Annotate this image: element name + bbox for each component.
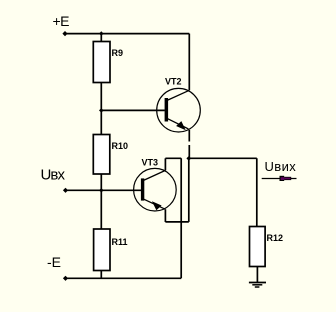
wire R11 bottom stub (100, 271, 102, 279)
transistor VT3 emitter arrow (PNP, points to base) (153, 202, 161, 209)
wire R9 to R10 (100, 83, 102, 135)
transistor VT2 collector slant (167, 90, 190, 100)
wire bottom rail -E (66, 277, 182, 279)
svg-text:R10: R10 (112, 141, 129, 151)
resistor R11 (94, 229, 110, 271)
node terminal -E (63, 276, 68, 281)
resistor R12 (250, 227, 266, 267)
wire top rail +E (65, 33, 189, 35)
wire emitters bottom edge (165, 221, 188, 223)
svg-text:Uвх: Uвх (41, 167, 66, 184)
svg-text:-E: -E (47, 254, 61, 270)
wire VT2 emitter vertical upper (188, 130, 190, 142)
transistor Q VT2 (157, 88, 201, 132)
svg-text:Uвих: Uвих (265, 159, 297, 174)
wire emitters vertical to output node (188, 158, 190, 222)
transistor VT3 collector slant (143, 170, 165, 180)
svg-text:+E: +E (53, 13, 70, 29)
node terminal Uvx (63, 188, 68, 193)
wire Uvx rail / VT3 base (66, 189, 142, 191)
transistor VT2 body circle (157, 88, 201, 132)
node junction VT2 base (99, 108, 104, 113)
node junction R9 top (99, 31, 104, 36)
svg-text:R9: R9 (112, 48, 124, 58)
node junction Uvx (99, 188, 104, 193)
wire R9 top stub (100, 34, 102, 42)
output arrow head (280, 176, 292, 181)
transistor VT3 base bar (141, 178, 144, 200)
transistor VT3 body circle (134, 168, 177, 211)
svg-text:VT2: VT2 (165, 77, 182, 87)
wire VT3 collector down to -E rail (180, 158, 182, 278)
wire VT2 emitter vertical lower (188, 145, 190, 158)
transistor VT2 emitter slant (167, 118, 189, 129)
wire VT3 collector top edge (165, 157, 181, 159)
svg-text:R11: R11 (112, 237, 128, 247)
wire VT2 collector vertical (188, 34, 190, 91)
output arrow line (262, 178, 297, 180)
resistor R9 (93, 42, 110, 83)
transistor VT2 emitter arrow (177, 122, 185, 129)
wire R12 to ground (256, 267, 258, 283)
wire VT2 base (101, 109, 165, 111)
wire R10 to R11 (100, 174, 102, 229)
node junction output (186, 156, 191, 161)
transistor VT3 emitter slant (143, 199, 165, 210)
ground (249, 283, 266, 288)
transistor VT2 base bar (165, 98, 169, 122)
wire output down to R12 (256, 158, 258, 226)
svg-text:R12: R12 (267, 233, 284, 243)
wire output horizontal (189, 157, 257, 159)
transistor Q VT3 (134, 168, 177, 211)
svg-text:VT3: VT3 (142, 157, 159, 167)
resistor R10 (93, 135, 110, 175)
wire VT3 collector vertical (164, 158, 166, 170)
wire VT3 emitter vertical (164, 209, 166, 222)
node terminal +E (62, 31, 67, 36)
